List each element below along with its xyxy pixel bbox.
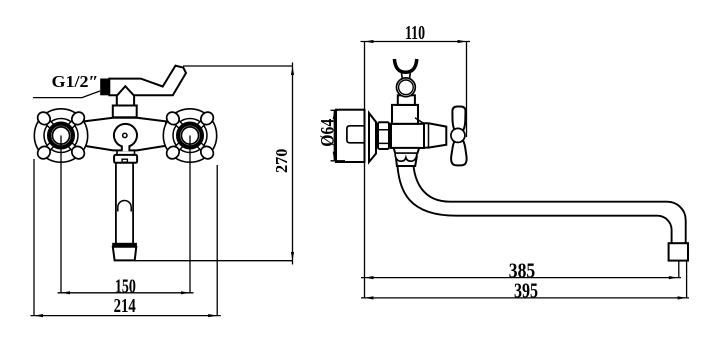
dimension diameter 64 bracket [331, 110, 346, 161]
svg-text:395: 395 [514, 279, 538, 303]
label 214 [114, 295, 136, 317]
side view: valve body block [391, 124, 424, 148]
front view: riser pentagon below spout [117, 86, 134, 106]
nozzle right extension [686, 261, 688, 299]
label G1/2" [52, 72, 99, 91]
svg-text:270: 270 [272, 149, 291, 174]
side view: shower hook fork [394, 59, 416, 72]
front view: neck below body [117, 150, 135, 155]
label diameter 64 [318, 118, 339, 146]
label 110 [405, 23, 425, 44]
front view: inner tube arch [118, 201, 131, 212]
side view: fork stem [401, 72, 410, 80]
side view: nozzle [669, 243, 688, 260]
dimension 150 line [58, 291, 194, 294]
label 270 [272, 149, 291, 174]
dimension 385 line [361, 276, 681, 279]
extension line right handle center [189, 136, 191, 294]
front view: down pipe [116, 163, 133, 244]
dimension 270: top connector line [183, 65, 293, 67]
dimension 110 extension left [364, 42, 366, 299]
side view: lower nut trapezoid [394, 148, 420, 153]
front view: diverter collar [114, 155, 137, 163]
front view: left handle [34, 109, 87, 162]
side view: riser block [398, 95, 415, 105]
front view: pipe bottom cap [113, 243, 137, 260]
dimension 270: bottom connector line [135, 260, 293, 262]
dimension 110 extension right [466, 42, 468, 137]
extension line left of 214 [33, 159, 35, 316]
side view: bracket ring [397, 78, 416, 97]
side view: cross handle dogbone [451, 107, 467, 166]
svg-text:214: 214 [114, 295, 136, 317]
side view: nut shadow line [395, 153, 418, 155]
label 395 [514, 279, 538, 303]
front view: spout bar and lever outline [109, 66, 186, 96]
front view: center keyhole boss [114, 124, 137, 151]
svg-text:Ø64: Ø64 [318, 118, 339, 146]
side view: bell escutcheon [369, 113, 376, 162]
extension line left handle center [60, 136, 62, 294]
dimension 395 line [361, 296, 689, 299]
leader line for G1/2 [33, 91, 100, 98]
front view: right handle [163, 109, 216, 162]
side view: wall flange plate [336, 110, 365, 162]
dimension 270: vertical line with arrows [291, 63, 294, 265]
dimension 110 line [361, 40, 471, 43]
extension line right of 214 [216, 165, 218, 316]
dimension 214 line [31, 314, 221, 317]
svg-text:G1/2″: G1/2″ [52, 72, 99, 91]
front view: body bar [84, 118, 166, 151]
label 385 [509, 258, 535, 282]
nozzle center extension [678, 261, 680, 278]
side view: hex nut [378, 122, 389, 149]
side view: scallops [395, 154, 417, 161]
front view: top collar [113, 106, 137, 118]
side view: spout nut [396, 157, 417, 167]
side view: bonnet frustum [424, 123, 446, 147]
side view: top collar [392, 105, 424, 124]
svg-text:110: 110 [405, 23, 425, 44]
front view: G1/2 black inlet block [100, 79, 109, 96]
label 150 [115, 275, 136, 297]
side view: spout tube [398, 166, 686, 243]
